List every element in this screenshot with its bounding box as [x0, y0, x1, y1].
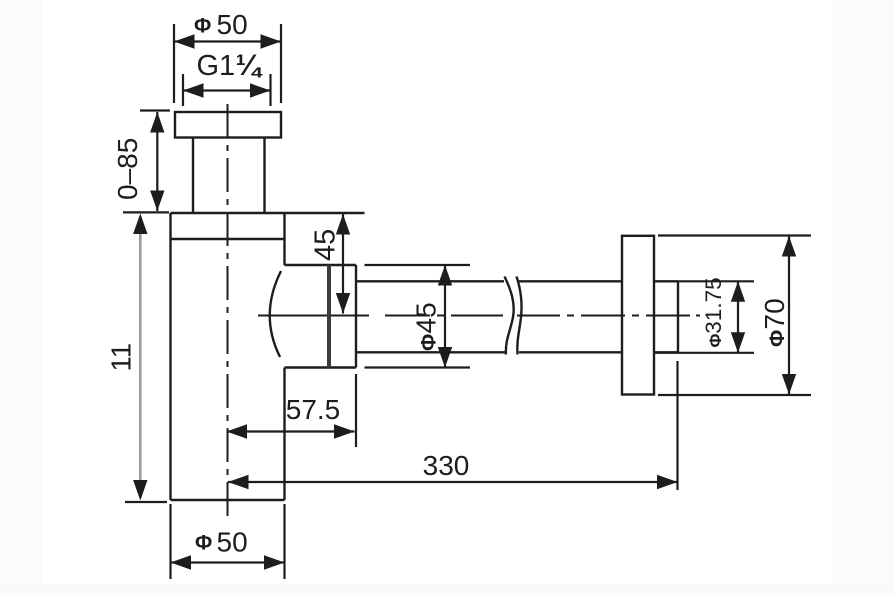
svg-text:Φ: Φ [766, 330, 789, 347]
svg-text:45: 45 [310, 229, 342, 261]
outlet pipe [356, 281, 622, 352]
body-outlet intersection arc [270, 271, 281, 357]
inlet nut [175, 112, 281, 138]
dimension Phi31.75 (pipe OD) [654, 281, 754, 353]
outlet collar [285, 265, 357, 368]
svg-text:Φ: Φ [194, 15, 211, 38]
svg-text:Φ: Φ [706, 334, 725, 348]
dimension Phi50 top [174, 24, 281, 103]
svg-text:31.75: 31.75 [701, 277, 726, 333]
svg-text:11: 11 [106, 343, 137, 372]
dimension 330 [228, 361, 678, 490]
pipe break squiggle [505, 277, 514, 355]
svg-text:¼: ¼ [236, 49, 264, 82]
vertical centerline of trap body [227, 104, 229, 517]
dimension Phi45 (collar OD) [365, 265, 471, 368]
trap body [171, 213, 365, 500]
inlet tailpiece pipe [193, 138, 265, 214]
svg-text:70: 70 [759, 298, 790, 329]
svg-text:45: 45 [411, 302, 442, 333]
svg-text:Φ: Φ [195, 532, 212, 555]
svg-text:G1: G1 [197, 50, 236, 82]
dimension Phi50 bottom [171, 504, 285, 579]
dimension G1 1/4 [183, 74, 271, 106]
pipe end [654, 281, 678, 352]
svg-text:0–85: 0–85 [112, 138, 143, 200]
svg-text:57.5: 57.5 [286, 394, 341, 425]
dimension 11 (body height) [106, 214, 168, 503]
dimension 45 (drop to outlet center) [310, 214, 351, 314]
svg-text:Φ: Φ [418, 334, 441, 351]
svg-text:50: 50 [217, 9, 248, 40]
svg-text:330: 330 [423, 450, 470, 481]
horizontal centerline of outlet pipe [258, 315, 700, 317]
wall flange [622, 236, 654, 395]
collar joint seam [327, 265, 331, 368]
body cap joint line [171, 238, 285, 240]
svg-text:50: 50 [217, 527, 248, 558]
dimension 0-85 [123, 111, 170, 213]
dimension 57.5 [227, 374, 357, 447]
dimension Phi70 (flange OD) [658, 236, 811, 396]
